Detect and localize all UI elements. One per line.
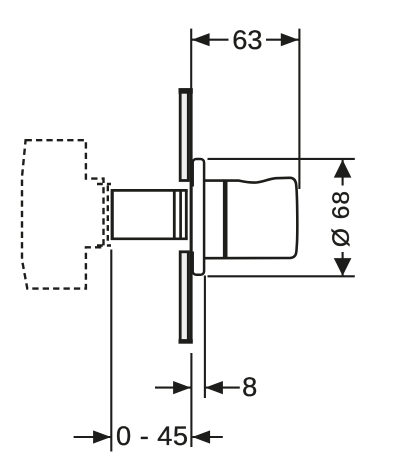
dimension 63 extension line right [298, 29, 300, 189]
svg-text:Ø 68: Ø 68 [328, 190, 355, 247]
svg-text:8: 8 [242, 371, 257, 402]
dimension 8 arrow right [205, 381, 223, 394]
handle outline [204, 178, 298, 258]
svg-text:63: 63 [232, 24, 262, 55]
dimension 63 arrow right [281, 33, 299, 46]
grip face line [223, 181, 228, 257]
dimension Ø68 line [342, 160, 344, 277]
dimension 8 leader right [205, 387, 240, 389]
wall plate lower segment [180, 252, 188, 341]
wall plate top cap [179, 88, 193, 94]
hidden spindle edge (dashed) [97, 184, 111, 246]
dimension Ø68 arrow up [334, 160, 352, 178]
dimension 0-45 extension line left [110, 250, 112, 452]
escutcheon left edge hidden break [193, 187, 196, 252]
escutcheon [193, 159, 204, 275]
dimension 8 extension line right (escutcheon face) [204, 276, 206, 399]
dimension 8 leader left [155, 387, 191, 389]
dimension Ø68 extension line top [208, 158, 355, 160]
dimension 8 arrow left [173, 381, 191, 394]
wall plate upper segment [180, 90, 188, 181]
dimension 63 line [192, 39, 299, 41]
collar ring line 2 [185, 190, 188, 238]
dimension 8 extension line left (wall) [190, 353, 192, 447]
valve cartridge body [111, 189, 188, 240]
wall plate bottom cap [179, 339, 193, 344]
wall surface line [190, 88, 193, 342]
dimension 0-45 leader left [74, 436, 111, 438]
dimension 63 extension line left [190, 29, 192, 89]
svg-text:0 - 45: 0 - 45 [116, 420, 189, 451]
dimension Ø68 arrow down [334, 258, 352, 276]
dimension Ø68 extension line bottom [208, 275, 355, 277]
concealed in-wall body (dashed outline) [22, 140, 104, 288]
dimension 0-45 arrow right [192, 430, 210, 443]
dimension 63 arrow left [192, 33, 210, 46]
dimension 0-45 leader right [193, 436, 223, 438]
dimension 0-45 arrow left [93, 430, 111, 443]
collar ring line 1 [179, 190, 182, 238]
